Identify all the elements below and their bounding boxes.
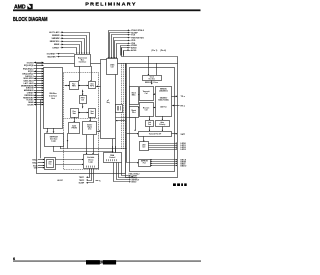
fifo cluster wires bbox=[65, 85, 70, 87]
wire TP in from bus bbox=[127, 133, 138, 135]
box 802.3 MAC bbox=[130, 87, 139, 105]
wire B6 down to bus bbox=[67, 133, 69, 149]
svg-text:AVSS: AVSS bbox=[131, 49, 137, 52]
svg-text:IOCS16: IOCS16 bbox=[27, 62, 34, 64]
box address PROM bbox=[69, 123, 80, 134]
svg-text:PROM: PROM bbox=[72, 127, 78, 129]
wire into clock gen bbox=[148, 56, 150, 75]
EEPROM pins bbox=[150, 159, 177, 161]
wire B5 down bbox=[60, 146, 62, 149]
wires B7 to BA bbox=[86, 135, 88, 154]
wire osc to BA row1 bbox=[55, 159, 83, 161]
box link test bbox=[146, 121, 154, 127]
wire SLEEP bbox=[127, 32, 128, 34]
svg-text:EEPROM: EEPROM bbox=[141, 161, 149, 163]
wire IOCHK bbox=[34, 104, 44, 106]
svg-text:AUI I/F: AUI I/F bbox=[57, 179, 62, 182]
wires to network box bbox=[116, 118, 136, 131]
wire into clock gen 2 bbox=[156, 63, 158, 75]
svg-text:TCK: TCK bbox=[131, 35, 136, 37]
svg-text:Port: Port bbox=[132, 111, 136, 114]
svg-text:PRELIMINARY: PRELIMINARY bbox=[85, 2, 137, 8]
footer part number bbox=[86, 260, 100, 264]
wires into DMA top bbox=[112, 146, 114, 153]
box transmit FIFO bbox=[89, 82, 96, 89]
svg-text:Osc: Osc bbox=[49, 164, 52, 166]
svg-text:SMEMW: SMEMW bbox=[52, 38, 60, 40]
box FIFO control bbox=[80, 96, 87, 104]
box buffer management bbox=[83, 122, 97, 135]
box expansion bus interface bbox=[75, 55, 91, 67]
wire clockgen down bbox=[151, 80, 153, 84]
svg-text:Logic: Logic bbox=[51, 141, 56, 143]
box receive FIFO bbox=[70, 82, 79, 90]
long bus wire A bbox=[60, 148, 127, 150]
wire TP out bbox=[172, 133, 177, 135]
wire down to oscillator bbox=[40, 99, 42, 158]
wire B7 right bbox=[97, 131, 100, 133]
svg-text:XTAL1: XTAL1 bbox=[32, 158, 37, 161]
svg-text:TMS/TDI/TDO: TMS/TDI/TDO bbox=[131, 37, 144, 39]
wires tests bbox=[149, 116, 151, 120]
wire MEMR/MEMW bbox=[34, 85, 44, 87]
box mgmt port bbox=[130, 107, 139, 118]
svg-text:EEDO: EEDO bbox=[181, 165, 187, 167]
network block outer box bbox=[126, 64, 178, 178]
svg-text:IOCHK: IOCHK bbox=[27, 104, 34, 106]
dash label bbox=[96, 180, 99, 182]
svg-text:Seq: Seq bbox=[106, 102, 109, 104]
svg-text:Link: Link bbox=[148, 122, 151, 124]
box microcode sequencer tall bbox=[101, 60, 116, 139]
pin RX bbox=[172, 105, 179, 107]
wire SBHE bbox=[34, 102, 44, 104]
wire SBHE bbox=[62, 43, 64, 45]
wire LA17-LA23 bbox=[62, 31, 64, 33]
wire REFRESH bbox=[34, 95, 44, 97]
svg-text:Control: Control bbox=[109, 156, 116, 159]
wire top-right feed bbox=[122, 48, 178, 64]
svg-text:XTAL2: XTAL2 bbox=[32, 161, 37, 164]
svg-text:Clock: Clock bbox=[150, 76, 154, 78]
box oscillator outer bbox=[45, 158, 56, 170]
box rcv status bbox=[71, 109, 79, 118]
wire BIU to EEPROM interface bbox=[47, 128, 49, 132]
svg-text:(Pin 4): (Pin 4) bbox=[160, 49, 166, 52]
dashed core boundary bbox=[64, 73, 99, 170]
box MENDEC TMAU bbox=[156, 87, 172, 117]
wire TCK bbox=[127, 34, 128, 36]
svg-text:Am79C961: Am79C961 bbox=[87, 260, 117, 265]
wire DRQ3-DRQ7 bbox=[34, 73, 44, 75]
box LED control bbox=[140, 142, 149, 151]
box clock generator bbox=[143, 76, 162, 81]
wire TMS/TDI/TDO bbox=[127, 37, 128, 39]
svg-text:(Pin 1): (Pin 1) bbox=[152, 50, 158, 52]
wire SMEMR bbox=[62, 34, 64, 36]
box xmt status bbox=[89, 109, 96, 118]
svg-text:Ts: Ts bbox=[99, 180, 101, 182]
svg-text:Twisted Pair I/F: Twisted Pair I/F bbox=[149, 133, 161, 136]
svg-text:XMT: XMT bbox=[181, 134, 186, 136]
svg-text:Stat: Stat bbox=[90, 112, 94, 115]
wire B1 to FIFO bbox=[79, 66, 81, 81]
svg-text:EEDO: EEDO bbox=[132, 182, 137, 184]
svg-text:Unit: Unit bbox=[51, 97, 55, 100]
wire AEN/BALE bbox=[34, 90, 44, 92]
footer rule bbox=[13, 260, 201, 263]
wire DACK0-3 bbox=[34, 76, 44, 78]
box ISA bus interface unit bbox=[44, 68, 63, 129]
svg-text:SBHE: SBHE bbox=[54, 44, 60, 46]
svg-text:Interface: Interface bbox=[79, 61, 87, 64]
box bus tap bbox=[116, 105, 123, 113]
box JTAG port control bbox=[107, 59, 118, 75]
svg-text:VDD: VDD bbox=[131, 40, 136, 42]
wire CHRDY bbox=[62, 47, 64, 49]
figure number 18219B-5 bbox=[173, 183, 176, 186]
svg-text:TEST2: TEST2 bbox=[79, 180, 84, 182]
svg-text:MENDEC: MENDEC bbox=[160, 88, 168, 90]
wire VSS bbox=[127, 42, 128, 44]
long bus wire B bbox=[53, 151, 113, 153]
box receive path bbox=[140, 103, 154, 117]
wire osc to BA row2 bbox=[55, 164, 83, 166]
wires TB down to DMA ctrl bbox=[112, 139, 114, 153]
wire VDD bbox=[127, 40, 128, 42]
svg-text:Unit: Unit bbox=[88, 128, 92, 131]
svg-text:Stat: Stat bbox=[73, 112, 77, 115]
wire CHRDY bbox=[34, 92, 44, 94]
svg-text:SLEEP: SLEEP bbox=[79, 183, 85, 185]
box external address detect bbox=[84, 155, 99, 169]
pin TX bbox=[172, 96, 177, 98]
svg-text:CHRDY: CHRDY bbox=[52, 47, 60, 49]
wire TC/OSC bbox=[34, 99, 44, 101]
svg-text:BLOCK DIAGRAM: BLOCK DIAGRAM bbox=[13, 17, 48, 23]
network block inner box bbox=[130, 68, 175, 172]
wire IOR/IOW bbox=[34, 87, 44, 89]
wire IOCS16 bbox=[34, 62, 44, 64]
main chip box bbox=[37, 64, 126, 174]
svg-text:TEST1: TEST1 bbox=[79, 177, 84, 179]
svg-text:6: 6 bbox=[13, 257, 15, 261]
box oscillator inner bbox=[47, 160, 54, 168]
wire SA00-SA19 bbox=[34, 80, 44, 82]
svg-text:SMEMR: SMEMR bbox=[52, 35, 60, 37]
box transmit path bbox=[140, 87, 154, 101]
wire IRQ15 bbox=[34, 71, 44, 73]
dashed divider bbox=[64, 118, 99, 120]
box EEPROM port bbox=[139, 160, 151, 167]
box EEPROM interface bbox=[45, 134, 64, 147]
wire SD00-SD15 bbox=[34, 78, 44, 80]
wire IRQ3-IRQ5 bbox=[34, 65, 44, 67]
wires MAC paths bbox=[153, 94, 155, 96]
svg-text:LA17-LA23: LA17-LA23 bbox=[49, 31, 60, 34]
svg-text:LED3: LED3 bbox=[181, 149, 187, 151]
dashed internal bus bbox=[121, 64, 123, 150]
svg-text:Logic: Logic bbox=[89, 161, 94, 163]
svg-text:MASTER: MASTER bbox=[48, 55, 57, 58]
BA bottom wires bbox=[88, 169, 90, 178]
header rule bbox=[13, 9, 201, 11]
wire XTAL1/XTAL2 bbox=[127, 29, 128, 31]
box twisted pair interface bbox=[139, 132, 172, 137]
wire MEMCS16 bbox=[62, 40, 64, 42]
box DMA control bbox=[104, 153, 122, 163]
DMA bottom wires bbox=[122, 163, 131, 176]
svg-text:FIFO: FIFO bbox=[72, 86, 77, 88]
svg-text:MEMCS16: MEMCS16 bbox=[50, 41, 61, 43]
svg-text:IOCHRDY: IOCHRDY bbox=[47, 54, 56, 56]
wires into B6 B7 bbox=[74, 117, 76, 122]
wire SMEMW bbox=[62, 37, 64, 39]
bus drop wire bbox=[127, 64, 139, 163]
box auto polarity bbox=[156, 121, 170, 127]
svg-text:FIFO: FIFO bbox=[90, 85, 95, 87]
LED output pins bbox=[148, 143, 176, 145]
wire LA17-LA23 bbox=[34, 83, 44, 85]
wire IRQ9-IRQ12 bbox=[34, 68, 44, 70]
svg-text:IRQ3-IRQ5: IRQ3-IRQ5 bbox=[24, 65, 33, 67]
wire RESETDRV bbox=[34, 97, 44, 99]
